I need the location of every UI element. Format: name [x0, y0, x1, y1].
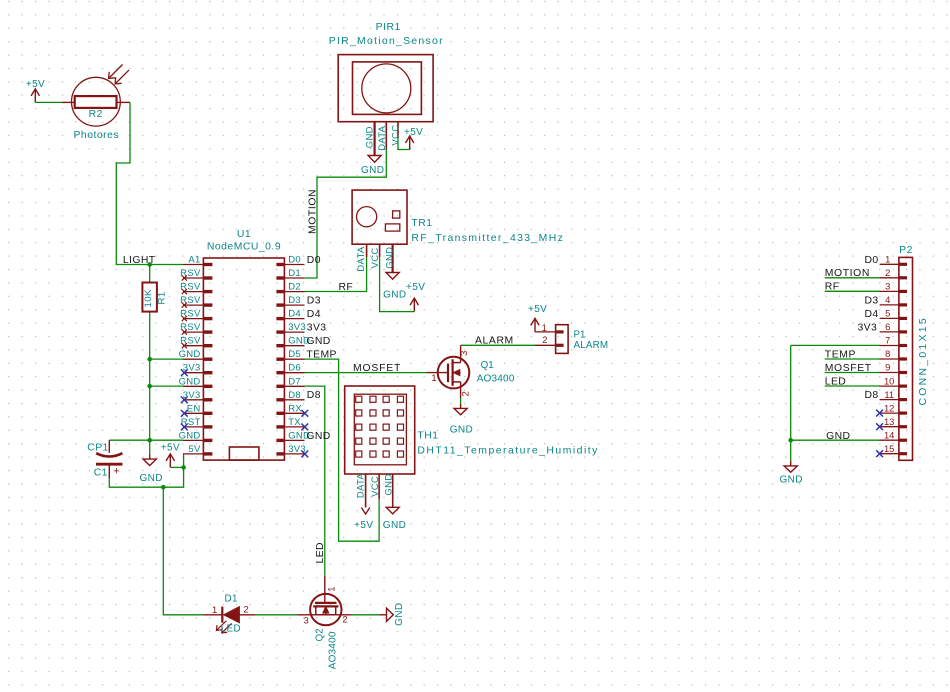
svg-text:A1: A1 [188, 255, 200, 266]
svg-text:D3: D3 [865, 295, 879, 306]
svg-text:+: + [113, 465, 119, 477]
svg-text:D4: D4 [865, 309, 879, 320]
svg-text:9: 9 [885, 362, 890, 373]
svg-text:14: 14 [884, 429, 894, 440]
svg-text:LIGHT: LIGHT [123, 255, 156, 266]
svg-text:1: 1 [885, 254, 890, 265]
svg-text:GND: GND [383, 520, 406, 531]
svg-text:DATA: DATA [377, 125, 388, 150]
svg-text:3V3: 3V3 [288, 322, 306, 333]
svg-text:LED: LED [315, 542, 326, 563]
svg-text:GND: GND [450, 424, 473, 435]
svg-text:GND: GND [306, 336, 330, 347]
svg-text:D4: D4 [307, 309, 321, 320]
svg-text:10K: 10K [143, 289, 154, 307]
svg-text:2: 2 [542, 334, 547, 345]
svg-text:4: 4 [885, 294, 890, 305]
svg-text:Q1: Q1 [481, 360, 494, 371]
svg-text:ALARM: ALARM [475, 335, 514, 346]
svg-text:C1: C1 [94, 468, 108, 479]
svg-text:13: 13 [884, 416, 894, 427]
svg-text:D3: D3 [307, 296, 321, 307]
svg-text:AO3400: AO3400 [477, 373, 515, 384]
svg-text:MOSFET: MOSFET [825, 363, 872, 374]
svg-text:CP1: CP1 [87, 443, 108, 454]
svg-text:D2: D2 [288, 282, 301, 293]
svg-text:TX: TX [288, 417, 301, 428]
svg-text:U1: U1 [237, 229, 251, 240]
svg-text:12: 12 [884, 402, 894, 413]
svg-text:AO3400: AO3400 [328, 631, 339, 669]
svg-text:D8: D8 [307, 390, 321, 401]
svg-text:TR1: TR1 [411, 218, 432, 229]
svg-text:11: 11 [884, 389, 894, 400]
svg-text:LED: LED [825, 376, 846, 387]
svg-text:GND: GND [384, 247, 395, 269]
svg-text:D8: D8 [288, 390, 301, 401]
svg-text:PIR1: PIR1 [376, 22, 401, 33]
svg-text:1: 1 [212, 604, 217, 615]
svg-text:Q2: Q2 [314, 628, 325, 641]
svg-text:VCC: VCC [370, 247, 381, 268]
svg-text:3V3: 3V3 [307, 323, 327, 334]
svg-text:VCC: VCC [391, 125, 402, 146]
svg-text:GND: GND [361, 165, 384, 176]
svg-text:+5V: +5V [404, 127, 423, 138]
svg-text:5V: 5V [188, 444, 201, 455]
svg-text:RF: RF [339, 282, 354, 293]
svg-text:CONN_01X15: CONN_01X15 [918, 316, 929, 405]
svg-text:1: 1 [542, 322, 547, 333]
svg-text:P2: P2 [899, 245, 913, 256]
svg-text:3: 3 [885, 281, 890, 292]
svg-text:D6: D6 [288, 363, 301, 374]
svg-text:GND: GND [394, 602, 405, 625]
svg-text:3V3: 3V3 [858, 322, 878, 333]
svg-text:LED: LED [221, 624, 241, 635]
svg-text:MOTION: MOTION [825, 268, 870, 279]
svg-text:ALARM: ALARM [574, 340, 609, 351]
svg-text:+5V: +5V [528, 304, 547, 315]
svg-text:P1: P1 [574, 329, 586, 340]
svg-text:GND: GND [364, 126, 375, 148]
svg-text:Photores: Photores [74, 130, 120, 141]
svg-text:2: 2 [244, 604, 249, 615]
svg-text:GND: GND [779, 474, 802, 485]
svg-text:2: 2 [885, 267, 890, 278]
svg-text:D3: D3 [288, 295, 301, 306]
svg-text:PIR_Motion_Sensor: PIR_Motion_Sensor [329, 36, 444, 47]
svg-text:DHT11_Temperature_Humidity: DHT11_Temperature_Humidity [417, 446, 598, 457]
svg-text:5: 5 [885, 308, 890, 319]
svg-text:GND: GND [179, 430, 201, 441]
svg-text:7: 7 [885, 335, 890, 346]
svg-text:VCC: VCC [370, 476, 381, 497]
svg-text:3: 3 [458, 351, 469, 356]
svg-text:D0: D0 [288, 255, 301, 266]
svg-text:+5V: +5V [354, 520, 373, 531]
svg-text:GND: GND [179, 349, 201, 360]
svg-text:D8: D8 [865, 390, 879, 401]
svg-text:D4: D4 [288, 309, 301, 320]
svg-text:R1: R1 [156, 291, 167, 304]
svg-text:NodeMCU_0.9: NodeMCU_0.9 [207, 241, 281, 252]
svg-text:D0: D0 [865, 255, 879, 266]
svg-text:RF: RF [825, 282, 840, 293]
svg-text:D5: D5 [288, 349, 301, 360]
svg-text:GND: GND [826, 431, 850, 442]
svg-text:DATA: DATA [356, 246, 367, 271]
svg-text:+5V: +5V [161, 443, 180, 454]
svg-text:2: 2 [459, 391, 470, 396]
svg-text:GND: GND [383, 290, 406, 301]
svg-text:D0: D0 [307, 255, 321, 266]
svg-text:GND: GND [306, 431, 330, 442]
svg-text:TH1: TH1 [417, 431, 438, 442]
svg-text:TEMP: TEMP [825, 349, 856, 360]
svg-text:2: 2 [342, 614, 347, 625]
svg-text:RX: RX [288, 403, 302, 414]
svg-text:15: 15 [884, 443, 894, 454]
svg-text:GND: GND [139, 473, 162, 484]
svg-text:GND: GND [383, 474, 394, 496]
svg-text:MOSFET: MOSFET [353, 363, 401, 374]
svg-text:R2: R2 [89, 109, 103, 120]
svg-text:6: 6 [885, 321, 890, 332]
svg-text:EN: EN [187, 403, 201, 414]
svg-text:3: 3 [304, 614, 309, 625]
svg-text:MOTION: MOTION [308, 189, 319, 234]
svg-text:DATA: DATA [355, 473, 366, 498]
svg-text:TEMP: TEMP [306, 350, 336, 361]
svg-text:D7: D7 [288, 376, 301, 387]
svg-text:1: 1 [326, 586, 337, 591]
svg-text:GND: GND [179, 376, 201, 387]
svg-text:+5V: +5V [26, 79, 45, 90]
svg-text:10: 10 [884, 375, 894, 386]
svg-text:1: 1 [431, 372, 436, 383]
svg-text:D1: D1 [288, 268, 301, 279]
svg-text:D1: D1 [225, 594, 238, 605]
svg-text:RF_Transmitter_433_MHz: RF_Transmitter_433_MHz [411, 233, 564, 244]
svg-text:+5V: +5V [406, 282, 425, 293]
svg-text:8: 8 [885, 348, 890, 359]
